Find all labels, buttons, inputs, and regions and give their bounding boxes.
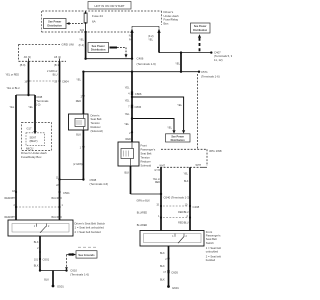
wire driver reducer to switch feed xyxy=(82,130,84,180)
front passenger's seat belt switch box xyxy=(140,231,204,247)
svg-text:BLU/RED: BLU/RED xyxy=(137,212,148,215)
wire ground drop xyxy=(52,271,54,286)
node connector xyxy=(167,257,169,259)
svg-text:YEL: YEL xyxy=(148,39,153,42)
svg-text:YEL: YEL xyxy=(183,173,188,176)
node rail right end xyxy=(198,71,200,73)
svg-text:Solenoid: Solenoid xyxy=(141,164,152,168)
svg-text:BLK: BLK xyxy=(184,180,189,183)
svg-text:BLK: BLK xyxy=(125,172,130,175)
wire driver switch ground xyxy=(39,236,41,271)
connector link dashed driver xyxy=(16,206,60,208)
node C640 junction xyxy=(160,193,162,195)
svg-text:G601: G601 xyxy=(172,286,179,290)
svg-text:C501: C501 xyxy=(63,191,70,195)
svg-text:BLK: BLK xyxy=(160,265,165,268)
wire horizontal reducer to passenger switch column xyxy=(131,193,162,195)
svg-text:See Power: See Power xyxy=(171,135,184,138)
svg-text:Reducer: Reducer xyxy=(91,125,101,129)
wire passenger switch right column xyxy=(189,167,191,230)
node split bar xyxy=(16,94,35,96)
node C406 xyxy=(131,58,133,60)
wire rail2 to See Power Distribution xyxy=(132,97,184,130)
See Grounds box xyxy=(76,247,97,258)
wire dashed bus right (ORG UNI) xyxy=(161,148,207,150)
connector C408 dashed link xyxy=(163,205,188,207)
wire feed down to rail xyxy=(180,53,182,72)
svg-text:C806: C806 xyxy=(135,105,142,109)
svg-text:YEL: YEL xyxy=(177,104,182,107)
fuse/relay box dashed outline right xyxy=(161,11,163,25)
wire C406 down to rail xyxy=(131,59,133,72)
svg-text:BLK: BLK xyxy=(44,279,49,282)
svg-text:Fuse/Relay Box: Fuse/Relay Box xyxy=(21,155,42,159)
svg-text:BLK: BLK xyxy=(76,133,81,136)
svg-text:Passenger's: Passenger's xyxy=(141,148,156,152)
svg-text:(Terminals 4-6): (Terminals 4-6) xyxy=(90,182,109,186)
svg-text:BLU: BLU xyxy=(53,74,58,77)
node junction rail3 xyxy=(131,117,133,119)
node junction reducer line on passenger feed xyxy=(58,178,60,180)
svg-text:C640 (Terminals 1-3): C640 (Terminals 1-3) xyxy=(164,196,190,200)
wire driver reducer feed xyxy=(82,72,84,114)
fuse F24 (Fuse 24 6A) xyxy=(84,11,103,32)
node connector on wire xyxy=(82,146,84,148)
svg-text:YEL: YEL xyxy=(76,78,81,81)
svg-text:BLU/RED: BLU/RED xyxy=(52,216,63,219)
node connector on driver reducer wire xyxy=(82,95,84,97)
svg-text:Fuse 24: Fuse 24 xyxy=(92,14,103,18)
node rail left end xyxy=(82,71,84,73)
svg-text:Seat Belt: Seat Belt xyxy=(206,237,217,241)
svg-text:(BELT): (BELT) xyxy=(30,139,38,143)
svg-text:(Solenoid): (Solenoid) xyxy=(91,129,103,133)
svg-text:Front: Front xyxy=(206,230,213,234)
fuse/relay box dashed outline top xyxy=(42,10,162,12)
svg-text:C408: C408 xyxy=(193,205,200,209)
svg-text:See Power: See Power xyxy=(194,25,207,28)
dashed link to See Grounds xyxy=(66,255,68,268)
svg-text:C804: C804 xyxy=(62,80,69,84)
wire ground horizontal xyxy=(40,270,67,272)
driver's seat belt switch box xyxy=(8,220,73,236)
connector C806 lower xyxy=(131,105,133,109)
svg-text:Distribution: Distribution xyxy=(193,29,207,32)
node rail junction passenger column xyxy=(131,71,133,73)
wire passenger reducer down xyxy=(130,166,132,194)
svg-text:Distribution: Distribution xyxy=(47,23,62,27)
driver's seat belt tension reducer solenoid xyxy=(69,114,89,130)
svg-text:Tension: Tension xyxy=(91,121,101,125)
wire passenger switch ground xyxy=(168,246,170,287)
label Driver's Under-dash Fuse/Relay Box (top right) xyxy=(164,10,179,25)
svg-text:Tension: Tension xyxy=(141,156,151,160)
fuse/relay box internal dashed bus xyxy=(42,31,134,33)
node junction rail at 181 xyxy=(180,71,182,73)
dashed left edge xyxy=(18,44,20,61)
svg-text:GRN or BLK: GRN or BLK xyxy=(137,200,151,203)
svg-text:RED: RED xyxy=(76,100,81,103)
svg-text:YEL or BLU: YEL or BLU xyxy=(7,87,20,90)
wire relay output horizontal to C407 xyxy=(159,52,211,54)
svg-text:2 = Seat belt: 2 = Seat belt xyxy=(206,254,221,258)
svg-text:RED/WHT: RED/WHT xyxy=(5,197,17,200)
connector link lower dashed xyxy=(163,217,188,219)
svg-text:HOT IN ON OR START: HOT IN ON OR START xyxy=(94,4,124,8)
front passenger's seat belt tension reducer solenoid xyxy=(118,142,139,166)
wire passenger column xyxy=(131,72,133,142)
label driver's reducer xyxy=(91,113,103,133)
wire to driver switch (left) xyxy=(15,95,17,220)
label front passenger's seat belt switch xyxy=(206,230,221,262)
node ground junction xyxy=(39,269,41,271)
svg-text:BLK: BLK xyxy=(34,264,39,267)
dashed bottom edge xyxy=(19,60,66,62)
node connector on passenger reducer wire xyxy=(131,131,133,133)
See Power Distribution box 1 xyxy=(44,19,67,29)
svg-text:YEL: YEL xyxy=(124,123,129,126)
connector C601 xyxy=(39,258,41,260)
fuse/relay box dashed outline left xyxy=(41,11,43,32)
dashed arrow to See Power Distribution box 1 xyxy=(69,23,84,25)
svg-text:BLK: BLK xyxy=(160,252,165,255)
svg-text:1 = Seat belt: 1 = Seat belt xyxy=(206,246,221,250)
wire horizontal reducer to switch column xyxy=(60,179,84,181)
node junction driver reducer to switch wire xyxy=(82,178,84,180)
svg-text:BLU/RED: BLU/RED xyxy=(52,197,63,200)
See Power Distribution box 3 xyxy=(166,134,191,142)
svg-text:A5 (1): A5 (1) xyxy=(54,55,61,59)
svg-text:YEL: YEL xyxy=(167,126,172,129)
svg-text:C605: C605 xyxy=(171,270,178,274)
svg-text:Box: Box xyxy=(164,21,170,25)
svg-text:BLU/RED: BLU/RED xyxy=(137,224,148,227)
svg-text:RED/BLU: RED/BLU xyxy=(178,222,189,225)
node junction at 181 xyxy=(180,51,182,53)
svg-text:(2 GRN): (2 GRN) xyxy=(73,163,82,166)
svg-text:Front: Front xyxy=(141,144,148,148)
svg-text:Reducer: Reducer xyxy=(141,160,151,164)
node F24 junction xyxy=(84,31,86,33)
svg-text:C406: C406 xyxy=(137,57,144,61)
wire horizontal fuse to C406 xyxy=(86,58,132,60)
svg-text:GRD UNI: GRD UNI xyxy=(62,42,74,46)
pin stubs xyxy=(29,59,60,62)
svg-text:Distribution: Distribution xyxy=(171,139,185,142)
wire C571 dashed xyxy=(197,74,199,149)
svg-text:BLK: BLK xyxy=(160,278,165,281)
svg-text:GY B: GY B xyxy=(154,169,160,172)
svg-text:(F-2): (F-2) xyxy=(148,35,154,38)
svg-text:WHT: WHT xyxy=(160,165,166,168)
svg-text:unbuckled: unbuckled xyxy=(206,250,219,254)
svg-text:C601: C601 xyxy=(43,258,50,262)
svg-text:G501: G501 xyxy=(57,285,64,289)
node fuse output terminal xyxy=(84,58,86,60)
wire rail3 to See Power Distribution xyxy=(132,119,174,131)
svg-text:(Terminals 1-6): (Terminals 1-6) xyxy=(70,272,89,276)
svg-text:RED: RED xyxy=(126,138,131,141)
svg-text:Passenger's: Passenger's xyxy=(206,234,221,238)
ground G501 xyxy=(52,285,55,288)
wire fuse output down xyxy=(85,32,87,59)
svg-text:Seat Belt: Seat Belt xyxy=(91,117,102,121)
svg-text:YEL or RED: YEL or RED xyxy=(6,73,20,76)
label front passenger's reducer xyxy=(141,144,156,168)
svg-text:See Power: See Power xyxy=(48,20,61,24)
wire relay right leg down xyxy=(158,33,160,53)
svg-text:SEAT: SEAT xyxy=(30,135,37,139)
relay contact bracket xyxy=(129,26,161,41)
svg-text:A5 (3): A5 (3) xyxy=(24,55,31,59)
svg-text:buckled: buckled xyxy=(206,258,216,262)
ground G601 xyxy=(167,285,170,288)
svg-text:See Grounds: See Grounds xyxy=(78,253,95,257)
See Power Distribution box 2 xyxy=(88,43,109,53)
svg-text:YEL: YEL xyxy=(10,106,15,109)
svg-text:RED/BLU: RED/BLU xyxy=(178,211,189,214)
svg-text:RED/WHT: RED/WHT xyxy=(5,216,17,219)
wire power rail xyxy=(83,71,199,73)
svg-text:(B 9): (B 9) xyxy=(20,63,26,67)
svg-text:(Terminals 1-6): (Terminals 1-6) xyxy=(201,74,220,78)
svg-text:C806: C806 xyxy=(135,92,142,96)
svg-text:F24: F24 xyxy=(80,29,85,32)
wire driver branch left xyxy=(28,61,30,95)
svg-text:Switch: Switch xyxy=(206,241,214,245)
svg-text:G17: G17 xyxy=(27,126,32,130)
title box HOT IN ON OR START xyxy=(88,2,131,10)
wire relay left leg down to C406 xyxy=(131,33,133,59)
wire passenger switch left column xyxy=(160,167,162,230)
svg-text:WHT: WHT xyxy=(196,164,202,167)
svg-text:YEL: YEL xyxy=(125,113,130,116)
node C407 xyxy=(210,51,212,53)
connector C804 dashed link xyxy=(30,80,59,82)
svg-text:RED: RED xyxy=(155,181,160,184)
node junction rail2 xyxy=(131,96,133,98)
wire passenger feed long xyxy=(59,61,61,220)
svg-text:101: 101 xyxy=(34,258,39,261)
connector C605 xyxy=(167,270,169,273)
svg-text:See Power: See Power xyxy=(92,44,105,48)
MICU box dashed xyxy=(22,123,52,151)
connector C501 xyxy=(58,191,60,193)
svg-text:Driver's: Driver's xyxy=(91,113,101,117)
svg-text:11, 12): 11, 12) xyxy=(214,58,223,62)
svg-text:YEL: YEL xyxy=(175,63,180,66)
svg-text:YEL: YEL xyxy=(79,38,84,41)
svg-text:2 = Seat belt buckled: 2 = Seat belt buckled xyxy=(75,230,102,234)
svg-text:3PG 1W8: 3PG 1W8 xyxy=(209,149,222,153)
svg-text:MICU: MICU xyxy=(26,146,33,150)
svg-text:1-2): 1-2) xyxy=(36,103,41,107)
svg-text:BLK: BLK xyxy=(34,241,39,244)
wire dashed feed line passenger xyxy=(157,166,201,168)
wire to MICU xyxy=(34,95,36,131)
dashed arrow from See Power Distribution box 2 xyxy=(110,47,118,49)
dashed arrow from box 4 down to relay output xyxy=(198,34,201,38)
svg-text:(F-1): (F-1) xyxy=(79,44,85,47)
svg-text:Distribution: Distribution xyxy=(91,48,106,52)
svg-text:6A: 6A xyxy=(92,19,96,23)
connector C806 upper xyxy=(131,91,133,95)
See Power Distribution box 4 xyxy=(191,23,211,33)
svg-text:2A: 2A xyxy=(56,184,59,187)
svg-text:YEL: YEL xyxy=(28,106,33,109)
svg-text:YEL: YEL xyxy=(125,99,130,102)
dashed bus GRD UNI left xyxy=(19,43,60,45)
svg-text:Seat Belt: Seat Belt xyxy=(141,152,152,156)
svg-text:(Terminals 1-6): (Terminals 1-6) xyxy=(137,62,156,66)
svg-text:YEL: YEL xyxy=(125,86,130,89)
